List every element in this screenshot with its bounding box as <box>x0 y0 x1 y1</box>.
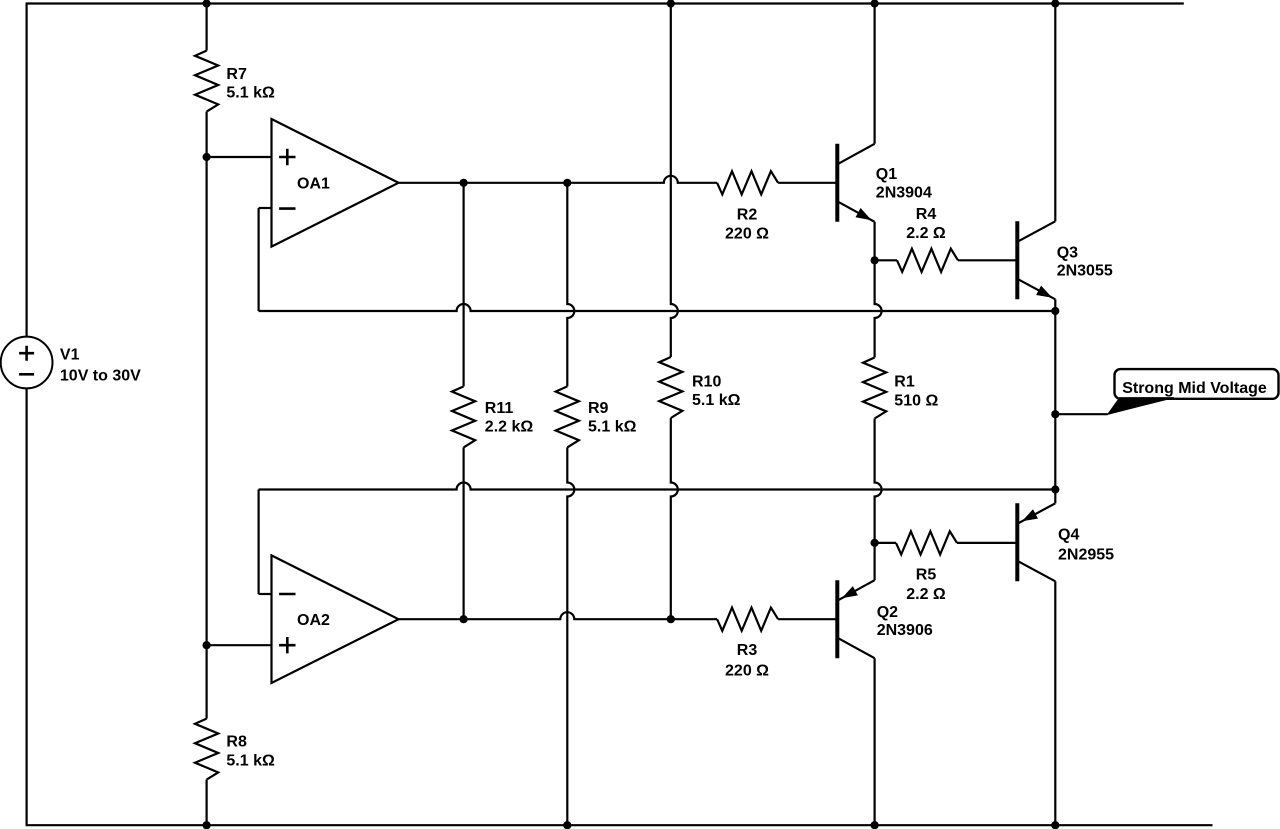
junction dot Q4 collector at bottom rail <box>1051 821 1059 829</box>
junction dot at OA2 plus input tap <box>203 641 211 649</box>
op-amp OA1 triangle <box>272 119 399 247</box>
OA1 plus input symbol <box>279 149 295 165</box>
wire Q3 emitter to feedback node <box>1054 299 1056 311</box>
resistor R2 <box>717 171 778 194</box>
Q1 emitter diagonal with NPN arrow <box>837 201 874 222</box>
wire R8 bottom lead to bottom rail <box>206 780 208 826</box>
wire R10 column lower lead to OA2 output row with hop <box>671 418 678 619</box>
node label callout Strong Mid Voltage <box>1115 369 1279 399</box>
junction dot Q1 emitter / R4 / R1 node <box>871 256 879 264</box>
junction dot OA2 feedback at output column <box>1051 485 1059 493</box>
resistor R10 <box>659 357 682 418</box>
wire from OA2 plus node down to R8 <box>206 645 208 718</box>
svg-text:R7: R7 <box>226 66 247 83</box>
svg-text:220 Ω: 220 Ω <box>725 663 769 680</box>
svg-text:2.2 Ω: 2.2 Ω <box>906 586 946 603</box>
resistor R9 <box>556 386 579 447</box>
wire OA1 feedback vertical drop <box>258 208 260 311</box>
wire R2 to Q1 base <box>778 182 837 184</box>
svg-text:R2: R2 <box>737 207 758 224</box>
wire Q1 collector to top rail <box>873 4 875 144</box>
junction dot Q1 collector at top rail <box>871 0 879 8</box>
resistor R8 <box>195 719 218 780</box>
wire top supply rail <box>26 2 1184 4</box>
wire R10 column upper lead from top rail with hop <box>671 4 678 358</box>
OA1 minus input symbol <box>279 207 295 210</box>
svg-text:R1: R1 <box>894 374 915 391</box>
Q1 collector diagonal <box>837 144 874 165</box>
transistor Q1 base bar <box>835 144 839 222</box>
wire R11 column upper lead <box>463 183 465 387</box>
V1 plus terminal mark <box>19 346 34 361</box>
V1 minus terminal mark <box>19 373 34 376</box>
wire R5 left lead <box>875 542 896 544</box>
resistor R1 <box>863 358 886 419</box>
junction dot Q2 collector at bottom rail <box>871 821 879 829</box>
wire OA1 minus input stub <box>259 207 272 209</box>
wire bottom rail <box>26 824 1213 826</box>
wire output column from Q3 emitter node down to OA2 feedback node <box>1054 311 1056 490</box>
svg-text:R5: R5 <box>916 567 937 584</box>
svg-text:5.1 kΩ: 5.1 kΩ <box>588 419 637 436</box>
wire OA1 output row with hop over R10 column <box>399 176 718 183</box>
junction dot OA2 output at R11 column <box>460 615 468 623</box>
svg-text:R10: R10 <box>692 373 721 390</box>
op-amp OA2 triangle <box>272 555 399 683</box>
OA2 plus input symbol <box>279 637 295 653</box>
junction dot OA1 output at R11 column <box>460 179 468 187</box>
resistor R4 <box>897 249 958 272</box>
svg-text:V1: V1 <box>60 347 80 364</box>
wire OA2 minus input stub <box>259 593 272 595</box>
junction dot R7 column at top rail <box>203 0 211 8</box>
svg-text:2N2955: 2N2955 <box>1058 547 1114 564</box>
svg-text:510 Ω: 510 Ω <box>894 392 938 409</box>
wire Q4 collector to bottom rail <box>1054 581 1056 825</box>
svg-text:R8: R8 <box>226 733 247 750</box>
junction dot R1 / R5 / Q2 emitter node <box>871 539 879 547</box>
wire R5 to Q4 base <box>957 542 1017 544</box>
wire R1 upper lead from Q1 emitter node with hop <box>875 260 882 357</box>
wire R1 lower lead to Q2 emitter node with hop <box>875 419 882 543</box>
wire R3 to Q2 base <box>778 618 837 620</box>
svg-text:2N3055: 2N3055 <box>1057 263 1113 280</box>
svg-text:Q2: Q2 <box>877 604 898 621</box>
svg-text:2N3906: 2N3906 <box>877 622 933 639</box>
OA2 minus input symbol <box>279 593 295 596</box>
wire R9 column lower lead to bottom rail with hops <box>567 447 574 825</box>
wire left rail lower segment (V1 to bottom rail) <box>26 388 28 825</box>
svg-text:R11: R11 <box>485 400 514 417</box>
wire R4 left lead <box>875 259 897 261</box>
wire OA2 feedback vertical rise <box>258 490 260 595</box>
Q3 collector diagonal <box>1017 221 1055 242</box>
wire OA1 plus input from divider <box>207 156 272 158</box>
wire R7 bottom to OA1 plus node <box>206 112 208 157</box>
transistor Q3 base bar <box>1015 221 1019 299</box>
svg-text:10V to 30V: 10V to 30V <box>60 368 141 385</box>
svg-text:OA1: OA1 <box>297 176 330 193</box>
transistor Q2 base bar <box>835 580 839 658</box>
junction dot R9 column at bottom rail <box>563 821 571 829</box>
junction dot strong mid voltage tap <box>1051 410 1059 418</box>
svg-text:220 Ω: 220 Ω <box>725 226 769 243</box>
Q2 collector diagonal <box>837 638 874 659</box>
wire Q2 emitter up to R5 node <box>873 543 875 580</box>
wire Q2 collector to bottom rail <box>873 658 875 825</box>
svg-text:5.1 kΩ: 5.1 kΩ <box>226 85 275 102</box>
svg-text:R9: R9 <box>588 400 609 417</box>
svg-text:5.1 kΩ: 5.1 kΩ <box>226 752 275 769</box>
wire R9 column upper lead with hop <box>567 183 574 387</box>
wire OA1 feedback row to output node with hops <box>259 304 1056 311</box>
wire OA2 output row with hop over R9 column <box>399 612 718 619</box>
svg-text:Strong Mid Voltage: Strong Mid Voltage <box>1122 380 1267 397</box>
junction dot at R7 / OA1 plus input <box>203 153 211 161</box>
svg-text:5.1 kΩ: 5.1 kΩ <box>692 392 741 409</box>
junction dot R8 column at bottom rail <box>203 821 211 829</box>
Q4 collector diagonal <box>1017 561 1055 582</box>
wire R7 top lead from top rail <box>206 4 208 51</box>
resistor R7 <box>195 51 218 112</box>
wire Q3 collector to top rail <box>1054 4 1056 222</box>
voltage source V1 circle <box>1 337 53 389</box>
Q2 emitter diagonal with PNP arrow <box>837 580 874 601</box>
junction dot OA1 output at R9 column <box>563 179 571 187</box>
svg-text:2.2 kΩ: 2.2 kΩ <box>485 419 534 436</box>
svg-text:R3: R3 <box>737 642 758 659</box>
resistor R3 <box>717 608 778 631</box>
svg-text:Q4: Q4 <box>1058 527 1079 544</box>
wire R4 to Q3 base <box>958 259 1017 261</box>
resistor R5 <box>896 531 957 554</box>
resistor R11 <box>452 386 475 447</box>
junction dot R10 column at top rail <box>667 0 675 8</box>
Q4 emitter diagonal with PNP arrow <box>1017 503 1055 524</box>
junction dot OA1 feedback at strong output column <box>1051 307 1059 315</box>
wire divider column from OA1 plus node down to OA2 plus node <box>206 157 208 645</box>
Q3 emitter diagonal with NPN arrow <box>1017 279 1055 300</box>
svg-text:Q1: Q1 <box>876 166 897 183</box>
wire R11 column lower lead to OA2 output row <box>463 447 465 619</box>
junction dot OA2 output at R10 column <box>667 615 675 623</box>
transistor Q4 base bar <box>1015 503 1019 581</box>
junction dot Q3 collector at top rail <box>1051 0 1059 8</box>
svg-text:OA2: OA2 <box>297 612 330 629</box>
svg-text:2.2 Ω: 2.2 Ω <box>906 225 946 242</box>
svg-text:R4: R4 <box>916 206 937 223</box>
svg-text:Q3: Q3 <box>1057 244 1078 261</box>
wire Q4 emitter stub from output node <box>1054 490 1056 504</box>
wire strong mid voltage tap to callout <box>1055 413 1108 415</box>
svg-text:2N3904: 2N3904 <box>876 185 932 202</box>
wire left rail upper segment (V1 to top rail) <box>26 4 28 337</box>
wire Q1 emitter down to R4 node <box>873 222 875 260</box>
wire OA2 plus input from divider <box>207 644 272 646</box>
wire OA2 feedback row with hops <box>259 483 1056 490</box>
